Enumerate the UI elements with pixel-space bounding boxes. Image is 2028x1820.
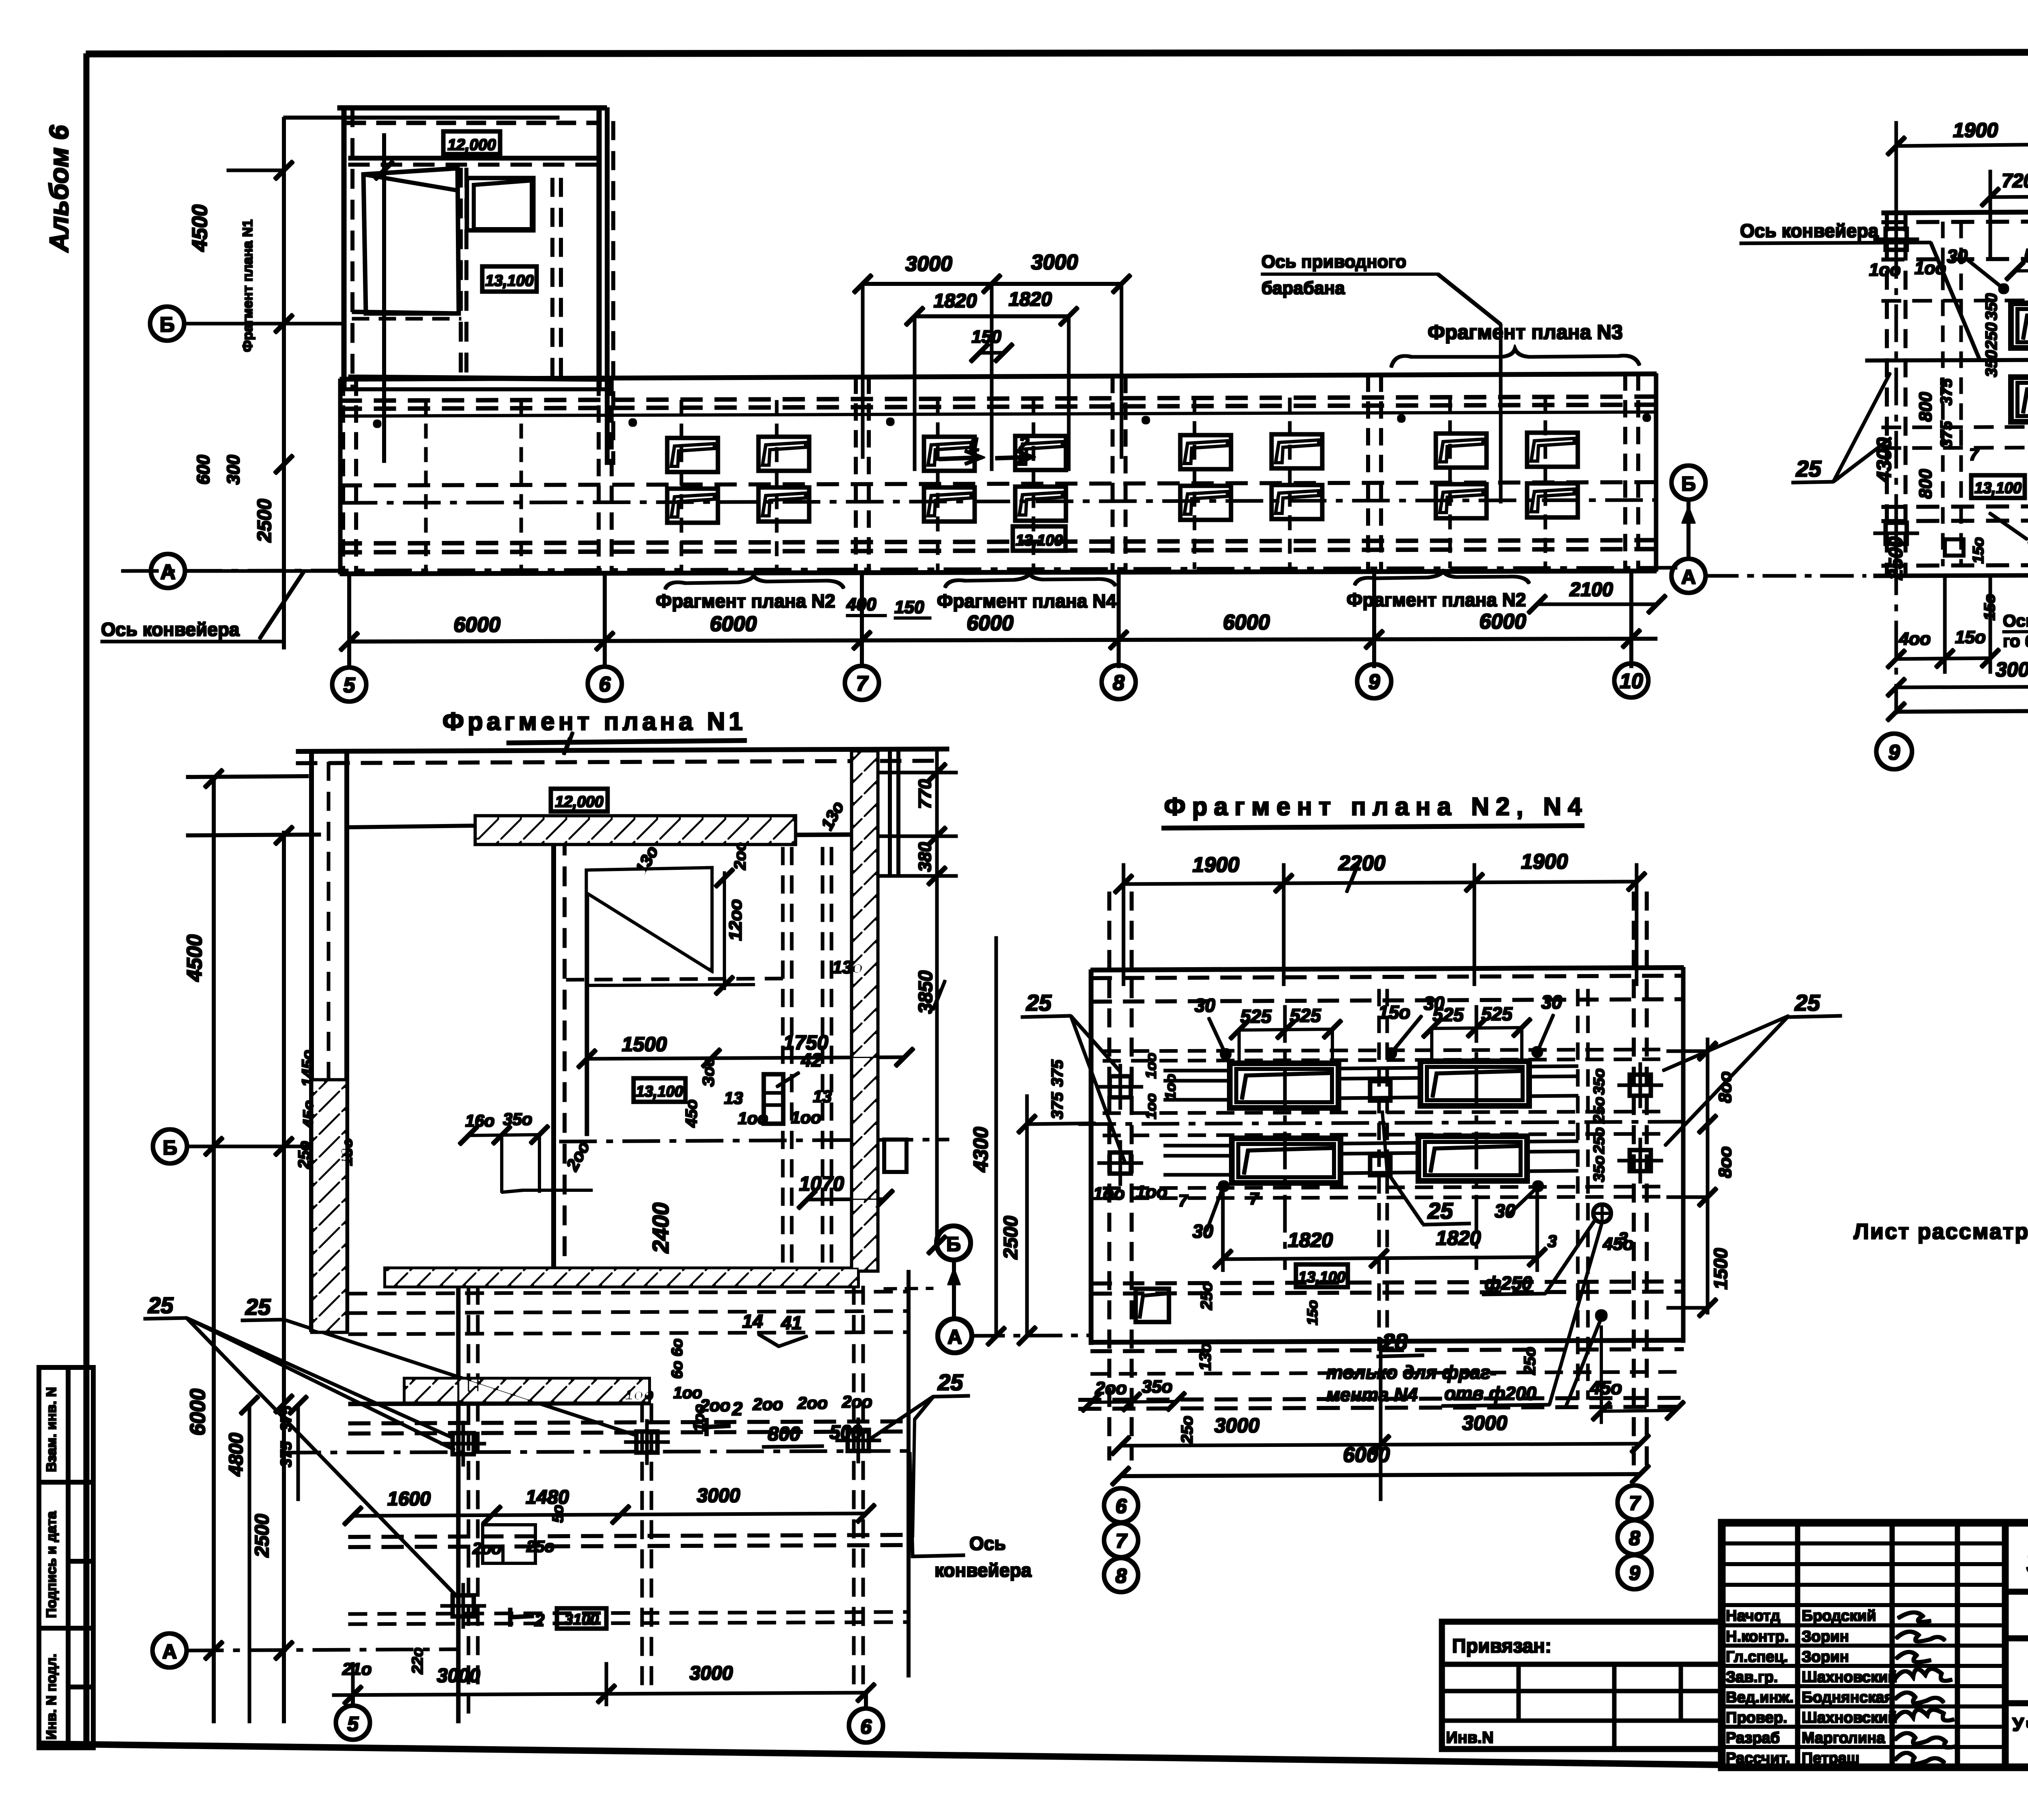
- svg-text:22о: 22о: [409, 1648, 426, 1674]
- svg-text:14: 14: [742, 1311, 763, 1332]
- svg-text:3000: 3000: [1462, 1412, 1507, 1434]
- svg-text:15о: 15о: [1970, 537, 1987, 564]
- top inner edge of room: [554, 835, 852, 836]
- svg-text:13: 13: [724, 1088, 743, 1107]
- svg-text:7: 7: [1249, 1189, 1259, 1208]
- svg-text:800: 800: [1916, 392, 1936, 422]
- svg-text:1820: 1820: [1009, 289, 1052, 310]
- svg-text:13: 13: [813, 1087, 832, 1106]
- svg-text:350: 350: [1983, 293, 2000, 320]
- svg-text:30: 30: [1947, 246, 1968, 267]
- svg-text:7: 7: [1969, 445, 1979, 464]
- svg-text:250: 250: [1983, 322, 2000, 350]
- svg-text:5о: 5о: [550, 1505, 567, 1523]
- svg-text:Разраб: Разраб: [1726, 1730, 1780, 1747]
- svg-text:9: 9: [1888, 741, 1900, 764]
- svg-text:9: 9: [1629, 1562, 1640, 1584]
- right dim vertical line: [1667, 1038, 1716, 1317]
- left wall hatched column: [312, 1080, 346, 1332]
- svg-text:6о: 6о: [669, 1339, 686, 1356]
- lower vertical walls: [457, 1286, 460, 1723]
- small panel bottom left: [1136, 1289, 1169, 1322]
- svg-text:6000: 6000: [1343, 1443, 1390, 1467]
- svg-text:Инв.N: Инв.N: [1446, 1729, 1494, 1747]
- svg-text:6000: 6000: [967, 612, 1014, 635]
- svg-text:13,100: 13,100: [1016, 532, 1063, 549]
- leader dots: [1999, 267, 2028, 294]
- svg-text:3000: 3000: [437, 1665, 480, 1687]
- top dim row 1900 2200 1900: [1115, 863, 1646, 985]
- hatched floor band 2: [405, 1379, 649, 1402]
- bubble stack 7 8 9 (right): [1618, 1485, 1652, 1589]
- title block outer box: [1722, 1523, 2028, 1767]
- svg-text:350: 350: [1983, 350, 2000, 377]
- svg-text:45о: 45о: [300, 1100, 318, 1129]
- svg-text:конвейера: конвейера: [935, 1560, 1032, 1581]
- panel side rails: [1164, 1066, 1578, 1175]
- svg-text:2500: 2500: [251, 1514, 273, 1558]
- plan body outline: [1866, 178, 2028, 714]
- left dim vertical lines: [987, 937, 1095, 1345]
- svg-text:Б: Б: [1681, 472, 1696, 495]
- svg-text:8: 8: [1115, 1565, 1127, 1587]
- svg-text:барабана: барабана: [1261, 278, 1345, 298]
- svg-text:8: 8: [1629, 1527, 1640, 1550]
- rows between panels: [1103, 1112, 1667, 1113]
- tower elevation mark 12,000: [443, 131, 500, 154]
- svg-text:1500: 1500: [1710, 1248, 1731, 1290]
- svg-text:2: 2: [534, 1610, 545, 1630]
- bottom dim row 6000 x5: [340, 570, 1657, 667]
- 2100 dim right of strip: [1528, 595, 1666, 613]
- lower ties: [441, 1421, 486, 1466]
- top wall hatched band: [349, 816, 795, 844]
- svg-text:ф250: ф250: [1484, 1273, 1532, 1294]
- axis bubble А (left): [151, 554, 185, 588]
- svg-text:Ось конвейера: Ось конвейера: [1740, 220, 1879, 241]
- center axis: [560, 1140, 949, 1142]
- left margin stamp texts: [44, 1387, 59, 1740]
- right axis dashed pair: [1633, 892, 1635, 1468]
- tower interior window: [467, 178, 533, 230]
- left dim chains of N1: [187, 770, 320, 1723]
- svg-text:Б: Б: [163, 1136, 177, 1159]
- svg-text:2200: 2200: [1338, 852, 1386, 875]
- left dimension chain of strip: [227, 118, 559, 649]
- svg-text:А: А: [162, 1640, 177, 1663]
- tower top wall: [338, 106, 606, 110]
- svg-text:Вед.инж.: Вед.инж.: [1726, 1689, 1794, 1706]
- inner partition wall: [552, 836, 556, 1268]
- tower interior door leaf: [363, 168, 459, 313]
- signatures squiggles: [1895, 1612, 1958, 1764]
- svg-text:13о: 13о: [1197, 1343, 1214, 1371]
- svg-text:1900: 1900: [1192, 853, 1240, 877]
- svg-text:4300: 4300: [969, 1127, 992, 1172]
- svg-text:Инв. N подл.: Инв. N подл.: [44, 1654, 59, 1740]
- door leaf: [587, 868, 711, 1135]
- svg-text:Привязан:: Привязан:: [1452, 1635, 1551, 1657]
- svg-text:28: 28: [1382, 1329, 1408, 1354]
- svg-text:4500: 4500: [183, 934, 206, 982]
- svg-text:Альбом 6: Альбом 6: [44, 124, 74, 253]
- svg-text:21о: 21о: [342, 1659, 372, 1678]
- svg-text:Марголина: Марголина: [1802, 1730, 1886, 1747]
- Б axis bubble (N1): [153, 1129, 187, 1163]
- svg-text:35о: 35о: [1142, 1377, 1173, 1397]
- horizontal dashed rows upper: [1103, 1050, 1667, 1051]
- svg-text:25о: 25о: [295, 1141, 313, 1169]
- ф250 node and label: [1593, 1204, 1611, 1222]
- window column axis right: [1475, 1006, 1478, 1269]
- А axis bubble (N1): [153, 1633, 187, 1668]
- svg-text:2400: 2400: [648, 1202, 673, 1253]
- small circles on strip: [374, 414, 1650, 427]
- svg-text:3000: 3000: [1031, 251, 1078, 274]
- svg-text:13,100: 13,100: [636, 1083, 683, 1100]
- svg-text:4оо: 4оо: [1899, 629, 1931, 649]
- svg-text:25: 25: [1796, 456, 1822, 481]
- svg-text:Ось приводного: Ось приводного: [1261, 252, 1406, 272]
- svg-text:1900: 1900: [1521, 850, 1568, 874]
- plan top edge: [296, 732, 949, 1331]
- svg-text:7: 7: [1115, 1530, 1128, 1552]
- formwork panels left pair: [2011, 303, 2028, 348]
- strip main band: [122, 374, 1687, 574]
- svg-text:25: 25: [245, 1294, 271, 1320]
- svg-text:25: 25: [1794, 990, 1820, 1015]
- svg-text:35о: 35о: [503, 1110, 532, 1129]
- svg-text:Подпись и дата: Подпись и дата: [44, 1511, 59, 1618]
- interior dashed verticals: [782, 848, 784, 1268]
- svg-text:1070: 1070: [799, 1172, 844, 1195]
- svg-text:2оо: 2оо: [731, 841, 749, 870]
- tower right wall: [597, 108, 601, 389]
- svg-text:1оо: 1оо: [738, 1109, 768, 1128]
- svg-text:525: 525: [1290, 1005, 1321, 1026]
- svg-text:Зорин: Зорин: [1802, 1628, 1849, 1645]
- svg-text:9: 9: [1368, 670, 1380, 694]
- window column axis left: [1284, 1006, 1286, 1269]
- 13,100 box: [1971, 475, 2025, 498]
- svg-text:мента N4: мента N4: [1326, 1384, 1418, 1405]
- svg-text:45о: 45о: [1590, 1377, 1622, 1398]
- svg-text:1оо: 1оо: [1093, 1184, 1125, 1204]
- plan outline: [1079, 892, 1687, 1468]
- svg-text:Б: Б: [159, 313, 174, 337]
- 13,100 box on strip: [1013, 526, 1066, 551]
- bubble stack 6 7 8 (left): [1104, 1488, 1138, 1592]
- svg-text:Участок монолитный УМ10.: Участок монолитный УМ10.: [2012, 1714, 2028, 1735]
- svg-text:25о: 25о: [1198, 1282, 1216, 1310]
- svg-text:375: 375: [1938, 421, 1955, 448]
- right boundary dashed: [1577, 989, 1579, 1399]
- svg-text:3000: 3000: [1996, 658, 2028, 681]
- svg-text:8оо: 8оо: [1715, 1146, 1735, 1178]
- svg-text:7: 7: [1629, 1492, 1641, 1515]
- svg-text:380: 380: [915, 842, 935, 872]
- svg-text:150: 150: [894, 597, 924, 617]
- svg-text:1оо: 1оо: [673, 1384, 702, 1402]
- svg-text:25о: 25о: [1591, 1127, 1608, 1154]
- svg-text:6: 6: [1115, 1495, 1127, 1517]
- svg-text:16о: 16о: [465, 1111, 494, 1130]
- svg-text:1оо: 1оо: [791, 1108, 821, 1127]
- svg-text:500: 500: [829, 1422, 862, 1443]
- lower rows: [1091, 1281, 1683, 1283]
- column dashed verticals at axes 5..10: [343, 374, 1638, 574]
- tower: top-left stair/lift shaft plan: [338, 108, 613, 464]
- svg-text:Ось: Ось: [969, 1533, 1006, 1554]
- svg-text:25о: 25о: [1178, 1416, 1196, 1444]
- svg-text:145о: 145о: [299, 1050, 317, 1087]
- svg-text:30: 30: [1424, 993, 1445, 1014]
- svg-text:42: 42: [801, 1050, 822, 1071]
- svg-text:25: 25: [1427, 1198, 1453, 1223]
- svg-text:Н.контр.: Н.контр.: [1726, 1628, 1789, 1645]
- svg-text:35о: 35о: [1591, 1069, 1608, 1095]
- 13,100 elevation box: [634, 1078, 685, 1102]
- svg-text:1600: 1600: [387, 1488, 431, 1510]
- svg-text:525: 525: [1481, 1003, 1513, 1024]
- svg-text:15о: 15о: [1304, 1300, 1321, 1325]
- svg-text:А: А: [1681, 566, 1696, 588]
- svg-text:3850: 3850: [915, 970, 937, 1014]
- svg-text:770: 770: [915, 779, 935, 809]
- left boundary columns: [1886, 213, 1888, 576]
- svg-text:Фрагмент плана N2, N4: Фрагмент плана N2, N4: [1164, 793, 1588, 821]
- svg-text:4800: 4800: [226, 1433, 247, 1477]
- center dashed pair: [1378, 989, 1380, 1350]
- svg-text:30: 30: [1194, 995, 1216, 1016]
- svg-text:12оо: 12оо: [726, 899, 745, 941]
- svg-text:Ось конвейера: Ось конвейера: [101, 619, 240, 640]
- svg-text:25: 25: [1026, 990, 1052, 1015]
- svg-text:2оо: 2оо: [752, 1395, 783, 1414]
- dim 1900: [1887, 122, 2028, 284]
- svg-text:800: 800: [768, 1423, 800, 1445]
- svg-text:12,000: 12,000: [447, 136, 496, 154]
- svg-text:1900: 1900: [1953, 119, 1998, 142]
- svg-text:А: А: [947, 1326, 962, 1348]
- svg-text:6000: 6000: [453, 613, 501, 637]
- right side dim chain of N1: [877, 749, 957, 1254]
- left axis dashed pair (col): [1108, 892, 1111, 1460]
- svg-text:Фрагмент плана N2: Фрагмент плана N2: [656, 590, 835, 612]
- left margin stamp boxes: [39, 1367, 93, 1748]
- svg-text:Ось приводно-: Ось приводно-: [2003, 611, 2028, 630]
- tower mid partition dashed: [460, 168, 462, 381]
- svg-text:25о: 25о: [1521, 1347, 1539, 1375]
- column bubbles 5..10: [332, 663, 1648, 702]
- svg-text:600: 600: [193, 455, 213, 485]
- svg-text:6000: 6000: [1223, 611, 1270, 634]
- svg-text:Шахновский: Шахновский: [1802, 1669, 1897, 1686]
- svg-text:4500: 4500: [188, 204, 212, 252]
- hatched floor band 1: [385, 1268, 858, 1286]
- lower area dashed rows: [284, 1271, 909, 1723]
- svg-text:3000: 3000: [905, 252, 952, 276]
- svg-text:6000: 6000: [1479, 610, 1526, 633]
- tower elevation mark 13,100: [482, 266, 537, 292]
- svg-text:2100: 2100: [1569, 579, 1613, 601]
- Б / А axis direction stack (left of plan): [937, 1226, 971, 1260]
- svg-text:Рассчит.: Рассчит.: [1726, 1750, 1790, 1767]
- svg-text:2оо: 2оо: [842, 1392, 872, 1411]
- horizontal dashed rows: [1882, 299, 2028, 301]
- svg-text:3: 3: [1547, 1232, 1557, 1251]
- signature table columns: [1796, 1523, 1800, 1767]
- strip formwork panels rows: [667, 433, 1578, 523]
- svg-text:13,100: 13,100: [1974, 480, 2022, 497]
- column bubbles 5 6 (N1 bottom): [336, 1706, 370, 1740]
- svg-text:3000: 3000: [690, 1663, 733, 1684]
- svg-text:1500: 1500: [622, 1033, 667, 1056]
- svg-text:7: 7: [1178, 1191, 1188, 1210]
- ties on left/right axes: [1098, 1065, 1143, 1109]
- node dot lower + leader: [1596, 1310, 1607, 1321]
- svg-text:720: 720: [2002, 170, 2028, 192]
- svg-text:8оо: 8оо: [1715, 1071, 1735, 1103]
- svg-text:35о: 35о: [1591, 1156, 1608, 1182]
- svg-text:25: 25: [148, 1292, 174, 1318]
- svg-text:Боднянская: Боднянская: [1802, 1689, 1893, 1706]
- svg-text:Зорин: Зорин: [1802, 1648, 1849, 1665]
- right wall hatched strip: [852, 751, 877, 1271]
- svg-text:1оо: 1оо: [1143, 1053, 1159, 1079]
- svg-text:2оо: 2оо: [797, 1393, 828, 1412]
- svg-text:3100: 3100: [565, 1611, 599, 1628]
- 525 525 dims row1 left: [1230, 1019, 1531, 1065]
- svg-text:отв.ф200: отв.ф200: [1444, 1383, 1536, 1404]
- svg-text:1оо: 1оо: [1869, 260, 1901, 280]
- svg-text:2500: 2500: [254, 499, 275, 543]
- svg-text:13,100: 13,100: [485, 272, 534, 290]
- svg-text:30: 30: [1541, 992, 1562, 1013]
- svg-text:3000: 3000: [697, 1485, 740, 1507]
- small tie square bottom left: [1945, 539, 1964, 556]
- svg-text:1820: 1820: [1288, 1229, 1333, 1251]
- svg-text:А: А: [160, 560, 176, 584]
- tower interior floor lines: [352, 312, 459, 313]
- column bubbles 9 10: [1876, 734, 1912, 769]
- svg-text:Зав.гр.: Зав.гр.: [1726, 1669, 1778, 1686]
- svg-text:25о: 25о: [526, 1538, 554, 1556]
- svg-text:Бродский: Бродский: [1802, 1608, 1876, 1625]
- svg-text:Гл.спец.: Гл.спец.: [1726, 1648, 1788, 1665]
- svg-text:6: 6: [860, 1715, 872, 1738]
- svg-text:300: 300: [223, 455, 243, 485]
- svg-text:10: 10: [1620, 670, 1643, 693]
- svg-text:1оо: 1оо: [1143, 1093, 1159, 1119]
- svg-text:2оо: 2оо: [700, 1396, 730, 1415]
- svg-text:Петраш: Петраш: [1802, 1750, 1860, 1767]
- right part rows: [2005, 1589, 2028, 1594]
- signature table rows: [1722, 1542, 2005, 1545]
- svg-text:Фрагмент плана N1: Фрагмент плана N1: [443, 708, 746, 736]
- svg-text:Начотд: Начотд: [1726, 1608, 1780, 1625]
- svg-text:903-1-270.89: 903-1-270.89: [2026, 1539, 2028, 1582]
- svg-text:800: 800: [1916, 469, 1936, 499]
- right wall outer lines: [884, 751, 907, 1172]
- svg-text:6: 6: [599, 673, 611, 696]
- svg-text:2500: 2500: [1000, 1216, 1022, 1260]
- svg-text:6000: 6000: [710, 612, 757, 636]
- svg-text:3000: 3000: [1214, 1414, 1259, 1437]
- svg-text:1оо: 1оо: [1162, 1074, 1179, 1100]
- svg-text:1820: 1820: [934, 290, 977, 312]
- center axis: [1079, 1122, 1687, 1124]
- svg-text:25о: 25о: [1591, 1097, 1608, 1124]
- svg-text:5: 5: [347, 1713, 359, 1735]
- svg-text:Б: Б: [946, 1233, 961, 1256]
- svg-text:7: 7: [856, 672, 869, 695]
- right edge solid: [1682, 968, 1685, 1342]
- svg-text:25: 25: [937, 1369, 963, 1395]
- svg-text:375: 375: [1048, 1060, 1066, 1087]
- svg-text:41: 41: [781, 1312, 802, 1333]
- tower left wall: [342, 108, 346, 389]
- svg-text:6000: 6000: [186, 1389, 210, 1436]
- svg-text:6о: 6о: [669, 1361, 686, 1379]
- svg-text:Взам. инв. N: Взам. инв. N: [44, 1387, 59, 1472]
- svg-text:45о: 45о: [1603, 1234, 1634, 1254]
- signature rows: [1726, 1608, 1897, 1767]
- axis bubble Б (left): [150, 307, 184, 341]
- svg-text:13о: 13о: [832, 957, 863, 977]
- svg-text:Фрагмент плана N3: Фрагмент плана N3: [1428, 321, 1623, 343]
- svg-text:го барабана: го барабана: [2003, 631, 2028, 650]
- svg-text:525: 525: [1240, 1006, 1272, 1027]
- svg-text:13о: 13о: [338, 1138, 356, 1166]
- svg-text:375: 375: [1938, 378, 1955, 406]
- svg-text:1оо: 1оо: [1136, 1182, 1167, 1202]
- top boundary: [1882, 210, 2028, 213]
- svg-text:5: 5: [344, 674, 356, 697]
- center small tie squares: [1370, 1081, 1390, 1101]
- svg-text:45о: 45о: [683, 1099, 700, 1128]
- svg-text:8: 8: [1113, 671, 1125, 695]
- svg-text:1: 1: [969, 434, 980, 455]
- left outer wall: [310, 751, 314, 1331]
- svg-text:2оо: 2оо: [472, 1540, 501, 1558]
- svg-text:1820: 1820: [1436, 1227, 1481, 1249]
- strip bay content repeated: [343, 374, 1638, 574]
- svg-text:15о: 15о: [1955, 627, 1986, 647]
- window panels 4x: [1230, 1063, 1338, 1108]
- internal dashed verticals: [1942, 222, 1944, 566]
- svg-text:12,000: 12,000: [555, 793, 604, 811]
- svg-text:1оо: 1оо: [625, 1386, 653, 1404]
- right axis direction stack Б/А: [1671, 466, 1706, 500]
- tie squares at columns: [1874, 217, 1918, 262]
- svg-text:1оо: 1оо: [1914, 258, 1946, 278]
- svg-text:Шахновский: Шахновский: [1802, 1709, 1897, 1726]
- "Привязан" table: [1442, 1622, 1722, 1749]
- 13,100 box: [1296, 1264, 1348, 1287]
- svg-text:Провер.: Провер.: [1726, 1709, 1787, 1726]
- dim row 720 720 580: [1981, 122, 2028, 284]
- intermediate dashed verticals: [426, 397, 1545, 571]
- 12,000 elevation box: [551, 789, 608, 811]
- svg-text:Фрагмент плана N4: Фрагмент плана N4: [937, 590, 1117, 612]
- 3100 box + section mark 2: [557, 1608, 606, 1629]
- svg-text:375: 375: [1048, 1092, 1066, 1119]
- svg-text:только для фраг-: только для фраг-: [1326, 1362, 1497, 1383]
- dims above strip center: 3000 3000 / 1820 1820 / 150: [854, 275, 1130, 470]
- strip bottom: fragment labels: [665, 576, 844, 589]
- svg-text:Лист рассматривать совместно: Лист рассматривать совместно с листом 68: [1854, 1219, 2028, 1244]
